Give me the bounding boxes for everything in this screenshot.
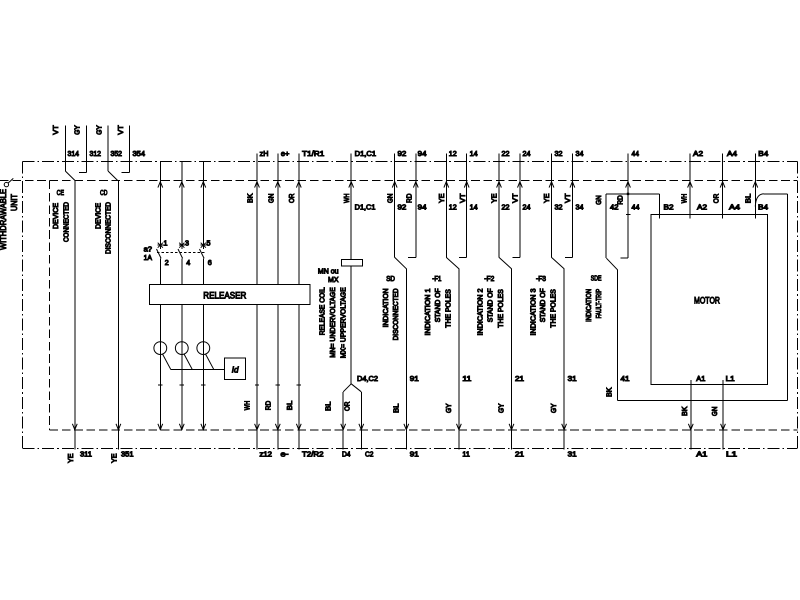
svg-text:92: 92 — [398, 151, 407, 158]
svg-text:11: 11 — [462, 451, 470, 458]
svg-text:RD: RD — [407, 194, 414, 204]
svg-text:VT: VT — [53, 124, 60, 134]
svg-text:UNIT: UNIT — [9, 194, 19, 211]
svg-text:-F1: -F1 — [432, 276, 441, 283]
svg-text:1: 1 — [164, 240, 168, 247]
svg-text:DISCONNECTED: DISCONNECTED — [106, 202, 113, 254]
svg-text:24: 24 — [523, 151, 531, 158]
svg-text:MX= UPPERVOLTAGE: MX= UPPERVOLTAGE — [340, 287, 347, 358]
svg-text:91: 91 — [410, 451, 419, 458]
svg-text:RD: RD — [266, 401, 273, 411]
svg-text:GY: GY — [75, 125, 82, 135]
svg-text:354: 354 — [133, 151, 146, 158]
svg-text:zH: zH — [260, 151, 269, 158]
svg-text:a?: a? — [144, 247, 153, 254]
svg-text:311: 311 — [80, 451, 92, 458]
svg-text:BL: BL — [326, 401, 333, 411]
svg-text:CD: CD — [100, 190, 107, 197]
svg-text:VT: VT — [118, 124, 125, 134]
svg-text:Id: Id — [232, 366, 239, 375]
svg-text:YE: YE — [439, 193, 446, 203]
svg-text:DEVICE: DEVICE — [53, 203, 60, 229]
svg-text:FAULT-TRIP: FAULT-TRIP — [596, 289, 603, 319]
svg-text:WITHDRAWABLE: WITHDRAWABLE — [0, 189, 8, 250]
svg-text:34: 34 — [576, 205, 584, 212]
svg-text:21: 21 — [515, 451, 524, 458]
svg-text:WH: WH — [344, 194, 351, 204]
svg-text:OR: OR — [714, 194, 721, 204]
svg-text:e-: e- — [281, 451, 290, 458]
svg-text:SD: SD — [386, 276, 395, 283]
svg-text:A1: A1 — [696, 376, 705, 383]
svg-text:BL: BL — [746, 194, 753, 204]
svg-text:THE POLES: THE POLES — [498, 289, 505, 328]
svg-text:BK: BK — [607, 387, 614, 397]
svg-text:31: 31 — [568, 376, 577, 383]
svg-text:BL: BL — [393, 403, 400, 413]
svg-text:4: 4 — [186, 260, 190, 267]
svg-text:94: 94 — [418, 205, 427, 212]
svg-text:WH: WH — [681, 194, 688, 204]
svg-text:12: 12 — [449, 205, 457, 212]
svg-text:DISCONNECTED: DISCONNECTED — [393, 288, 400, 340]
svg-text:T1/R1: T1/R1 — [302, 151, 324, 158]
svg-text:MN ou: MN ou — [318, 269, 339, 276]
svg-text:B4: B4 — [758, 205, 768, 212]
svg-text:THE POLES: THE POLES — [445, 289, 452, 328]
svg-text:z12: z12 — [260, 451, 273, 458]
svg-text:GY: GY — [499, 403, 506, 413]
svg-text:BL: BL — [287, 401, 294, 411]
svg-text:GY: GY — [97, 125, 104, 135]
svg-text:-F3: -F3 — [536, 276, 546, 283]
svg-text:-F2: -F2 — [484, 276, 494, 283]
svg-text:41: 41 — [621, 376, 630, 383]
svg-text:BK: BK — [682, 406, 689, 416]
svg-text:GN: GN — [268, 194, 275, 204]
svg-text:44: 44 — [632, 205, 640, 212]
svg-text:e+: e+ — [281, 151, 290, 158]
svg-text:MX: MX — [328, 277, 339, 284]
svg-text:MN= UNDERVOLTAGE: MN= UNDERVOLTAGE — [330, 287, 337, 358]
svg-text:YE: YE — [492, 193, 499, 203]
svg-text:32: 32 — [555, 205, 563, 212]
svg-text:351: 351 — [121, 451, 134, 458]
svg-text:L1: L1 — [726, 451, 737, 458]
svg-text:OR: OR — [345, 402, 352, 412]
svg-text:A2: A2 — [693, 151, 703, 158]
svg-text:RELEASER: RELEASER — [203, 291, 246, 301]
svg-text:C2: C2 — [365, 451, 374, 458]
svg-text:94: 94 — [418, 151, 427, 158]
svg-text:SDE: SDE — [591, 275, 602, 282]
svg-text:INDICATION 1: INDICATION 1 — [425, 288, 432, 335]
svg-text:B4: B4 — [758, 151, 768, 158]
svg-text:D4,C2: D4,C2 — [357, 376, 378, 383]
svg-text:GN: GN — [712, 407, 719, 417]
svg-text:21: 21 — [515, 376, 524, 383]
svg-text:VT: VT — [513, 193, 520, 203]
svg-text:34: 34 — [576, 151, 584, 158]
svg-text:INDICATION 2: INDICATION 2 — [478, 288, 485, 335]
svg-text:STAND OF: STAND OF — [488, 288, 495, 322]
svg-text:D4: D4 — [342, 451, 351, 458]
svg-text:GN: GN — [596, 195, 603, 205]
svg-text:14: 14 — [470, 151, 478, 158]
svg-text:YE: YE — [112, 453, 119, 463]
svg-text:91: 91 — [410, 376, 419, 383]
svg-text:RD: RD — [618, 195, 625, 205]
svg-text:BK: BK — [248, 193, 255, 203]
svg-text:92: 92 — [398, 205, 407, 212]
svg-text:314: 314 — [68, 151, 80, 158]
svg-text:22: 22 — [502, 205, 510, 212]
svg-text:GN: GN — [388, 194, 395, 204]
svg-text:12: 12 — [449, 151, 457, 158]
svg-text:44: 44 — [632, 151, 640, 158]
svg-text:A1: A1 — [696, 451, 707, 458]
svg-text:WH: WH — [245, 401, 252, 411]
svg-text:A4: A4 — [727, 151, 737, 158]
svg-text:14: 14 — [470, 205, 478, 212]
svg-text:GY: GY — [551, 403, 558, 413]
svg-text:1A: 1A — [144, 255, 153, 262]
svg-text:6: 6 — [208, 260, 212, 267]
svg-text:YE: YE — [544, 193, 551, 203]
svg-text:INDICATION: INDICATION — [586, 289, 593, 322]
svg-text:CE: CE — [57, 190, 65, 197]
svg-text:24: 24 — [523, 205, 531, 212]
svg-text:11: 11 — [462, 376, 471, 383]
svg-text:STAND OF: STAND OF — [435, 288, 442, 322]
svg-text:352: 352 — [111, 151, 123, 158]
svg-text:5: 5 — [207, 240, 211, 247]
svg-text:B2: B2 — [664, 205, 674, 212]
svg-text:VT: VT — [565, 193, 572, 203]
svg-text:A2: A2 — [697, 205, 707, 212]
svg-text:3: 3 — [185, 240, 189, 247]
svg-text:D1,C1: D1,C1 — [355, 205, 376, 212]
svg-text:2: 2 — [165, 260, 169, 267]
svg-text:VT: VT — [460, 193, 467, 203]
svg-text:D1,C1: D1,C1 — [355, 151, 377, 158]
svg-text:GY: GY — [446, 403, 453, 413]
svg-text:INDICATION 3: INDICATION 3 — [530, 288, 537, 335]
svg-text:STAND OF: STAND OF — [540, 288, 547, 322]
svg-text:RELEASE COIL: RELEASE COIL — [320, 287, 327, 335]
svg-text:MOTOR: MOTOR — [694, 295, 720, 305]
svg-text:YE: YE — [68, 453, 75, 463]
svg-text:31: 31 — [568, 451, 577, 458]
svg-text:INDICATION: INDICATION — [383, 288, 390, 327]
svg-text:THE POLES: THE POLES — [551, 289, 558, 328]
svg-text:OR: OR — [289, 194, 296, 204]
svg-text:32: 32 — [555, 151, 563, 158]
svg-text:T2/R2: T2/R2 — [302, 451, 324, 458]
svg-text:DEVICE: DEVICE — [95, 203, 102, 229]
svg-text:312: 312 — [90, 151, 102, 158]
svg-text:22: 22 — [502, 151, 510, 158]
svg-text:L1: L1 — [726, 376, 735, 383]
svg-text:A4: A4 — [729, 205, 740, 212]
svg-text:CONNECTED: CONNECTED — [63, 202, 70, 242]
